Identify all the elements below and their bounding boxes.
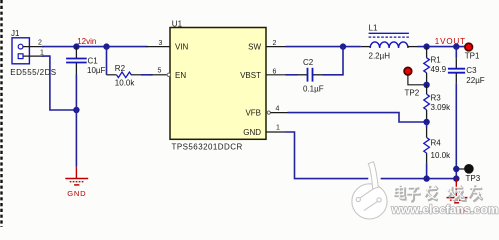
node ground rail end bbox=[453, 175, 459, 181]
wire 12vin rail J1 pin2 to VIN bbox=[42, 46, 148, 48]
svg-text:R4: R4 bbox=[431, 138, 442, 147]
pin 1 GND bbox=[266, 124, 286, 132]
node R3 bottom / R4 top / VFB bbox=[423, 119, 429, 125]
test point TP1 bbox=[465, 43, 480, 60]
node TP3 stem bbox=[453, 166, 459, 172]
node R2 top bbox=[103, 43, 109, 49]
test point TP3 bbox=[456, 165, 480, 184]
node R1 bottom / TP2 / R3 bbox=[423, 82, 429, 88]
svg-text:EN: EN bbox=[175, 71, 186, 80]
svg-text:TP1: TP1 bbox=[465, 51, 480, 60]
IC U1 TPS563201DDCR buck converter bbox=[170, 19, 266, 151]
pin 6 VBST bbox=[266, 68, 286, 75]
svg-text:10.0k: 10.0k bbox=[431, 151, 452, 160]
svg-text:2: 2 bbox=[273, 40, 277, 47]
pin 2 SW bbox=[266, 40, 286, 47]
resistor R4 bbox=[424, 122, 451, 179]
svg-text:3: 3 bbox=[159, 40, 163, 47]
watermark CJK text 电子发烧友 bbox=[396, 185, 483, 201]
svg-text:SW: SW bbox=[248, 43, 261, 52]
svg-text:VFB: VFB bbox=[245, 109, 261, 118]
svg-text:0.1µF: 0.1µF bbox=[303, 85, 324, 94]
svg-text:C3: C3 bbox=[466, 66, 477, 75]
wire J1 pin1 down and to C1 bottom bbox=[42, 56, 76, 110]
node R1 top bbox=[423, 43, 429, 49]
svg-text:VBST: VBST bbox=[240, 71, 261, 80]
svg-text:5: 5 bbox=[158, 68, 162, 75]
svg-text:2: 2 bbox=[38, 40, 42, 47]
capacitor C1 bbox=[66, 47, 105, 167]
node C2 top bbox=[340, 43, 346, 49]
svg-text:2.2µH: 2.2µH bbox=[369, 52, 391, 61]
wire 1VOUT rail bbox=[408, 46, 418, 48]
svg-text:GND: GND bbox=[243, 128, 261, 137]
svg-text:www.elecfans.com: www.elecfans.com bbox=[391, 203, 499, 217]
svg-text:VIN: VIN bbox=[175, 43, 189, 52]
svg-text:1: 1 bbox=[276, 124, 280, 131]
pin 3 VIN bbox=[147, 40, 171, 47]
sheet border (dashed) bbox=[0, 0, 2, 227]
wire SW rail bbox=[286, 46, 361, 48]
svg-text:C2: C2 bbox=[303, 58, 314, 67]
wire VFB to divider bbox=[288, 113, 427, 122]
svg-text:C1: C1 bbox=[88, 57, 99, 66]
svg-text:TP3: TP3 bbox=[466, 174, 481, 183]
svg-text:L1: L1 bbox=[369, 23, 378, 32]
svg-text:R1: R1 bbox=[431, 55, 442, 64]
pin 4 VFB bbox=[267, 105, 287, 114]
resistor R3 bbox=[424, 85, 451, 122]
pin 5 EN bbox=[152, 68, 171, 77]
ground GND1 bbox=[65, 167, 88, 198]
capacitor C3 bbox=[448, 47, 485, 179]
node C1 bottom junction bbox=[73, 107, 79, 113]
resistor R1 bbox=[424, 47, 447, 85]
svg-text:6: 6 bbox=[273, 68, 277, 75]
svg-text:GND: GND bbox=[67, 189, 86, 198]
node C1 top bbox=[73, 43, 79, 49]
watermark logo bbox=[352, 162, 387, 219]
svg-text:10µF: 10µF bbox=[87, 66, 106, 75]
connector J1 bbox=[10, 29, 56, 77]
svg-text:12vin: 12vin bbox=[77, 37, 96, 46]
node R4 bottom bbox=[423, 175, 429, 181]
svg-text:TP2: TP2 bbox=[405, 89, 420, 98]
svg-text:49.9: 49.9 bbox=[431, 65, 447, 74]
svg-text:R2: R2 bbox=[115, 64, 126, 73]
svg-text:R3: R3 bbox=[431, 93, 442, 102]
svg-text:1VOUT: 1VOUT bbox=[435, 37, 466, 46]
resistor R2 bbox=[107, 47, 153, 88]
inductor L1 bbox=[369, 23, 409, 60]
svg-text:22µF: 22µF bbox=[466, 76, 485, 85]
svg-text:10.0k: 10.0k bbox=[115, 79, 136, 88]
test point TP2 bbox=[404, 67, 427, 97]
svg-text:4: 4 bbox=[276, 105, 280, 112]
capacitor C2 bbox=[286, 47, 344, 94]
svg-text:3.09k: 3.09k bbox=[431, 103, 452, 112]
svg-text:TPS563201DDCR: TPS563201DDCR bbox=[172, 143, 243, 152]
node C3 top bbox=[453, 43, 459, 49]
wire U1 GND pin to ground rail bbox=[286, 132, 457, 179]
ground GND2 bbox=[447, 179, 468, 203]
svg-text:J1: J1 bbox=[11, 29, 20, 38]
